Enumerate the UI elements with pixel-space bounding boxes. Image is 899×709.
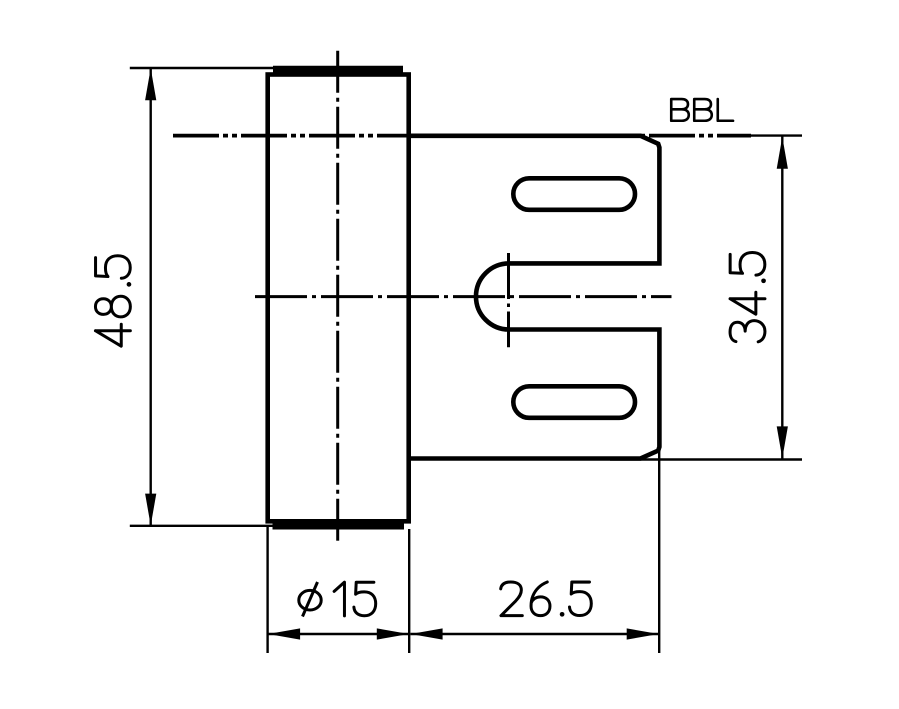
dim 26.5 arrow left <box>411 628 443 639</box>
dim d15 arrow left <box>268 628 300 639</box>
BBL phantom line (dash-dot-dot) <box>173 134 751 138</box>
dim d15 text 15 <box>334 582 376 616</box>
dim 48.5 extension line bottom <box>130 525 274 527</box>
dim 26.5 arrow right <box>627 628 659 639</box>
dim 26.5 dimension line <box>411 633 659 635</box>
dim 48.5 arrow down <box>145 494 156 526</box>
dim d15 diameter symbol circle <box>299 590 321 610</box>
dim 34.5 extension line bottom <box>610 458 802 460</box>
dim d15 dimension line <box>268 633 409 635</box>
dim d15 extension line right <box>408 529 410 653</box>
dim 48.5 arrow up <box>145 68 156 100</box>
dim 26.5 text <box>501 582 592 617</box>
lower slot <box>513 386 635 418</box>
barrel outline <box>268 75 409 522</box>
upper slot <box>513 178 635 210</box>
dim 48.5 extension line top <box>130 67 274 69</box>
dim 34.5 arrow down <box>777 426 788 458</box>
dim 48.5 dimension line <box>149 68 151 526</box>
frame plate outline <box>409 136 660 459</box>
dim 48.5 text <box>95 256 131 346</box>
dim 34.5 extension line top <box>751 134 802 136</box>
dim 34.5 arrow up <box>777 137 788 169</box>
dim d15 arrow right <box>377 628 409 639</box>
dim 26.5 extension line right <box>658 451 660 654</box>
barrel top face bar <box>273 66 403 73</box>
barrel bottom face bar <box>273 522 405 529</box>
dim 34.5 text <box>730 253 766 342</box>
barrel vertical centerline <box>336 51 339 543</box>
notch vertical centerline <box>507 253 510 347</box>
BBL label <box>671 99 733 121</box>
dim d15 diameter symbol slash <box>303 582 318 617</box>
part horizontal centerline <box>255 295 672 298</box>
dim d15 extension line left <box>266 527 268 653</box>
dim 34.5 dimension line <box>781 137 783 459</box>
